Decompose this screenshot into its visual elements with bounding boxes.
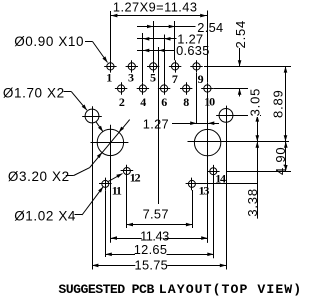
- svg-text:15.75: 15.75: [135, 257, 169, 272]
- svg-text:0.635: 0.635: [176, 43, 210, 58]
- svg-text:1.27: 1.27: [143, 116, 169, 131]
- svg-text:2: 2: [119, 95, 125, 109]
- svg-text:2.54: 2.54: [233, 20, 248, 49]
- svg-text:3.05: 3.05: [248, 88, 263, 117]
- svg-text:7: 7: [172, 72, 178, 86]
- svg-text:11: 11: [112, 184, 122, 198]
- svg-text:7.57: 7.57: [143, 207, 169, 222]
- svg-text:9: 9: [198, 72, 204, 86]
- svg-text:4: 4: [140, 95, 146, 109]
- svg-text:12.65: 12.65: [134, 242, 168, 257]
- svg-text:Ø1.02 X4: Ø1.02 X4: [14, 208, 76, 223]
- svg-text:6: 6: [161, 95, 167, 109]
- svg-text:SUGGESTED: SUGGESTED: [58, 282, 125, 297]
- svg-text:3.38: 3.38: [245, 188, 260, 217]
- svg-text:PCB: PCB: [132, 282, 155, 297]
- svg-text:14: 14: [215, 172, 226, 186]
- svg-text:4.90: 4.90: [273, 147, 288, 176]
- svg-text:Ø1.70 X2: Ø1.70 X2: [3, 85, 65, 100]
- svg-text:Ø3.20 X2: Ø3.20 X2: [8, 169, 70, 184]
- svg-text:13: 13: [199, 183, 210, 197]
- svg-text:1: 1: [106, 71, 112, 85]
- svg-text:10: 10: [204, 95, 215, 109]
- svg-text:8.89: 8.89: [271, 89, 286, 118]
- svg-text:LAYOUT(TOP VIEW): LAYOUT(TOP VIEW): [159, 282, 302, 297]
- svg-text:5: 5: [150, 71, 156, 85]
- svg-text:3: 3: [128, 71, 134, 85]
- svg-text:1.27X9=11.43: 1.27X9=11.43: [113, 0, 198, 14]
- svg-text:12: 12: [130, 171, 141, 185]
- svg-text:8: 8: [183, 95, 189, 109]
- svg-text:Ø0.90 X10: Ø0.90 X10: [14, 34, 84, 49]
